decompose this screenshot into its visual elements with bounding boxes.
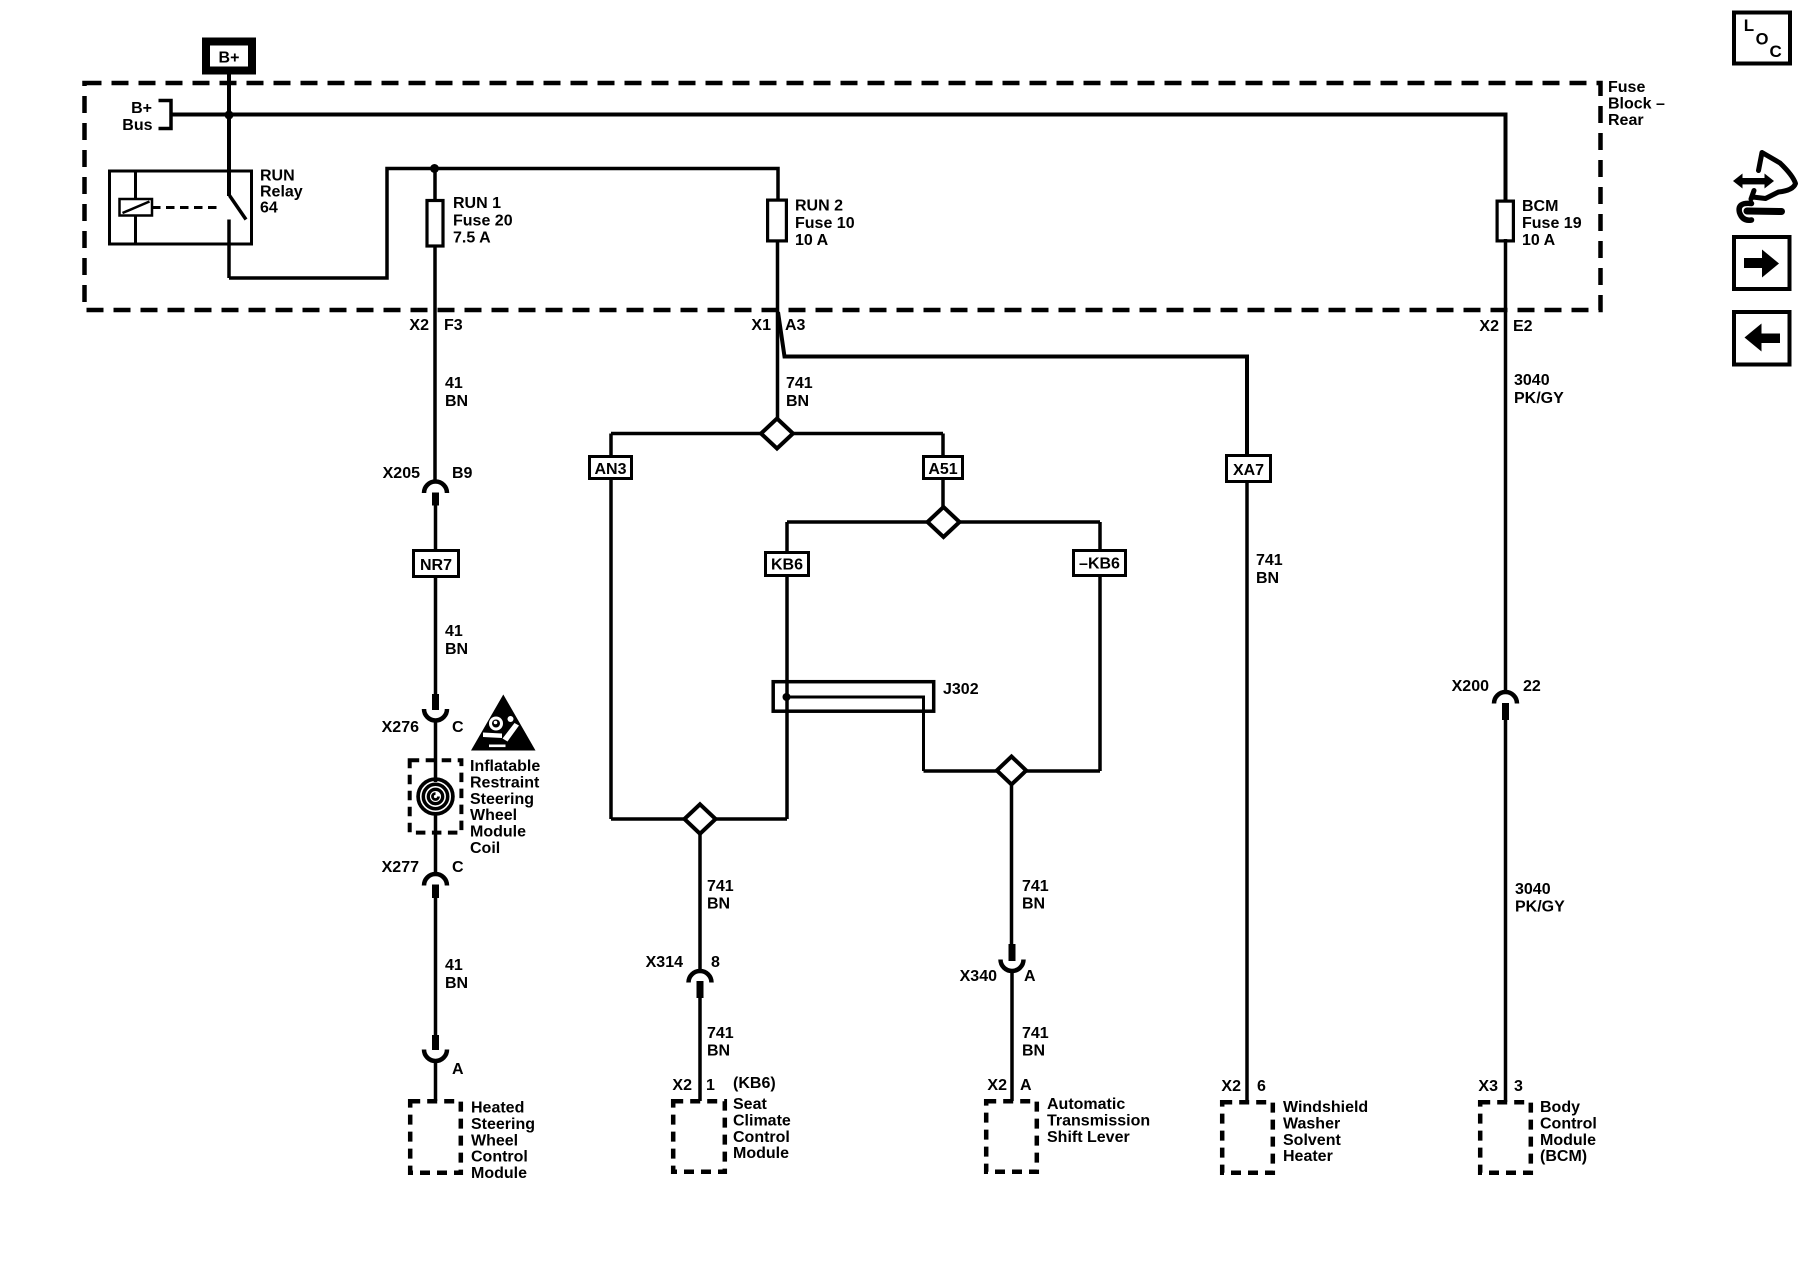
power feed B+ terminal	[206, 42, 252, 71]
svg-text:Automatic: Automatic	[1047, 1096, 1125, 1113]
diagram continuation squiggle arrow icon	[1739, 153, 1795, 221]
svg-text:RUN 2: RUN 2	[795, 198, 843, 215]
wire 3040 PK/GY X200 to BCM	[1504, 718, 1508, 1102]
option box KB6	[766, 553, 809, 576]
wire to AN3	[609, 434, 613, 458]
junction J302 bus	[783, 693, 791, 701]
automatic transmission shift lever box	[986, 1101, 1037, 1172]
svg-text:BN: BN	[1022, 1043, 1045, 1060]
svg-text:NR7: NR7	[420, 557, 452, 574]
svg-text:B9: B9	[452, 465, 473, 482]
splice diamond A51	[928, 507, 960, 537]
seat climate control module label	[733, 1096, 791, 1162]
option box A51	[924, 457, 963, 479]
pins X2 6 washer heater	[1221, 1078, 1266, 1095]
svg-text:Module: Module	[470, 824, 526, 841]
svg-text:X205: X205	[383, 465, 420, 482]
svg-text:10 A: 10 A	[1522, 232, 1556, 249]
wire 741 BN XA7 to washer solvent heater	[1245, 481, 1249, 1102]
connector NR7	[414, 551, 459, 577]
svg-text:Coil: Coil	[470, 840, 500, 857]
pins X1 A3	[751, 317, 805, 334]
wire splice to X314	[698, 833, 702, 970]
svg-text:Solvent: Solvent	[1283, 1132, 1341, 1149]
svg-text:KB6: KB6	[771, 557, 803, 574]
svg-text:Heated: Heated	[471, 1100, 524, 1117]
svg-text:BN: BN	[445, 975, 468, 992]
svg-text:3040: 3040	[1515, 881, 1551, 898]
svg-text:Fuse 20: Fuse 20	[453, 212, 513, 229]
wire 41 BN fuse RUN1 to X205	[433, 246, 437, 481]
svg-text:Module: Module	[1540, 1132, 1596, 1149]
wire into heated steering wheel module	[434, 1060, 438, 1102]
svg-text:BCM: BCM	[1522, 198, 1558, 215]
svg-text:X340: X340	[960, 968, 997, 985]
relay coil-to-switch dashed link	[152, 206, 222, 209]
label 741 BN XA7	[1256, 552, 1283, 587]
svg-text:3: 3	[1514, 1078, 1523, 1095]
svg-text:BN: BN	[707, 1043, 730, 1060]
svg-text:E2: E2	[1513, 318, 1533, 335]
wire X205 to NR7	[434, 503, 438, 550]
svg-text:Control: Control	[471, 1149, 528, 1166]
connector X314 pin 8	[646, 954, 720, 998]
svg-text:741: 741	[707, 1025, 734, 1042]
svg-text:7.5 A: 7.5 A	[453, 230, 491, 247]
wire to A51	[941, 434, 945, 458]
relay label RUN Relay 64	[260, 168, 303, 217]
svg-text:L: L	[1744, 16, 1754, 35]
svg-text:41: 41	[445, 957, 463, 974]
svg-text:22: 22	[1523, 678, 1541, 695]
pins X3 3 BCM	[1478, 1078, 1523, 1095]
node B+ Bus	[122, 100, 171, 134]
label 41 BN segment 1	[445, 375, 468, 410]
wire splice to X340	[1010, 784, 1014, 945]
svg-text:X1: X1	[751, 317, 771, 334]
LOC reference box	[1734, 13, 1790, 64]
svg-text:O: O	[1756, 30, 1769, 48]
coil label	[470, 758, 540, 857]
svg-text:6: 6	[1257, 1078, 1266, 1095]
svg-text:RUN 1: RUN 1	[453, 195, 501, 212]
body control module box	[1480, 1102, 1531, 1173]
splice diamond shift lever branch	[997, 757, 1026, 785]
windshield washer solvent heater label	[1283, 1099, 1368, 1165]
option box -KB6	[1074, 551, 1126, 576]
svg-text:Bus: Bus	[122, 117, 152, 134]
label 741 BN above X340	[1022, 878, 1049, 913]
inflatable restraint steering wheel module coil dashed box	[410, 760, 462, 832]
svg-text:Inflatable: Inflatable	[470, 758, 540, 775]
svg-text:–KB6: –KB6	[1079, 556, 1120, 573]
label 41 BN segment 2	[445, 623, 468, 658]
svg-text:A3: A3	[785, 317, 806, 334]
svg-text:Transmission: Transmission	[1047, 1112, 1150, 1129]
svg-text:PK/GY: PK/GY	[1514, 390, 1564, 407]
wire 41 BN X277 to heated steering wheel module	[434, 896, 438, 1036]
splice diamond seat climate branch	[684, 804, 715, 833]
fuse block label	[1608, 79, 1665, 129]
svg-text:41: 41	[445, 623, 463, 640]
relay coil	[120, 171, 153, 244]
svg-text:BN: BN	[707, 896, 730, 913]
svg-text:B+: B+	[219, 50, 240, 67]
wire 741 BN RUN2 fuse to splice diamond	[776, 241, 780, 434]
automatic transmission shift lever label	[1047, 1096, 1150, 1146]
svg-text:(BCM): (BCM)	[1540, 1148, 1587, 1165]
svg-text:1: 1	[706, 1077, 715, 1094]
svg-text:741: 741	[707, 878, 734, 895]
svg-text:Wheel: Wheel	[470, 807, 517, 824]
wire coil to X277	[434, 814, 438, 872]
svg-text:3040: 3040	[1514, 372, 1550, 389]
svg-text:41: 41	[445, 375, 463, 392]
svg-text:A: A	[452, 1061, 464, 1078]
svg-text:A: A	[1024, 968, 1036, 985]
svg-text:X314: X314	[646, 954, 683, 971]
wire RUN 1 fuse drop	[433, 169, 437, 201]
wire 741 BN X314 to seat climate module	[698, 996, 702, 1101]
pins X2 A shift lever	[987, 1077, 1032, 1094]
relay switch blade	[230, 196, 247, 220]
svg-text:AN3: AN3	[594, 461, 626, 478]
wire B+ bus to BCM fuse	[171, 115, 1506, 202]
svg-text:Windshield: Windshield	[1283, 1099, 1368, 1116]
heated steering wheel control module label	[471, 1100, 535, 1183]
svg-text:C: C	[452, 719, 464, 736]
svg-text:Shift Lever: Shift Lever	[1047, 1129, 1130, 1146]
svg-text:Steering: Steering	[471, 1116, 535, 1133]
wire 3040 PK/GY BCM fuse to X200	[1504, 239, 1508, 691]
connector X340 pin A	[960, 944, 1036, 985]
label 741 BN below X340	[1022, 1025, 1049, 1060]
svg-text:Module: Module	[733, 1145, 789, 1162]
backward reference arrow box	[1734, 312, 1790, 365]
relay RUN Relay 64 box	[110, 171, 252, 244]
svg-text:Control: Control	[1540, 1115, 1597, 1132]
svg-text:X200: X200	[1452, 678, 1489, 695]
wire lower splice horizontal	[611, 817, 787, 821]
svg-text:X276: X276	[382, 719, 419, 736]
svg-text:F3: F3	[444, 317, 463, 334]
body control module label	[1540, 1099, 1597, 1165]
svg-text:X2: X2	[1479, 318, 1499, 335]
connector X200 pin 22	[1452, 678, 1541, 720]
wire 741 BN X340 to shift lever	[1010, 970, 1014, 1102]
svg-text:C: C	[452, 859, 464, 876]
svg-text:X2: X2	[987, 1077, 1007, 1094]
svg-text:Block –: Block –	[1608, 95, 1665, 112]
clockspring coil spiral	[418, 779, 453, 814]
windshield washer solvent heater box	[1222, 1102, 1273, 1173]
wire AN3 to lower splice	[609, 477, 613, 819]
svg-text:J302: J302	[943, 681, 979, 698]
option box XA7	[1227, 456, 1271, 482]
svg-text:BN: BN	[1256, 570, 1279, 587]
svg-text:Seat: Seat	[733, 1096, 767, 1113]
splice diamond 741 BN	[761, 419, 793, 449]
wire branch A3 to XA7	[778, 312, 1247, 456]
svg-text:BN: BN	[445, 641, 468, 658]
svg-text:Relay: Relay	[260, 184, 303, 201]
option box AN3	[590, 457, 632, 479]
pins X2 E2	[1479, 318, 1532, 335]
fuse BCM Fuse 19 10 A	[1497, 201, 1513, 241]
label 41 BN segment 3	[445, 957, 468, 992]
wire KB6 through J302 to lower splice	[785, 575, 789, 820]
svg-text:BN: BN	[786, 393, 809, 410]
svg-text:BN: BN	[1022, 896, 1045, 913]
forward reference arrow box	[1734, 237, 1790, 289]
J302 internal bus wire	[787, 697, 924, 771]
svg-text:C: C	[1770, 42, 1782, 61]
connector X277 pin C	[382, 859, 464, 898]
wire B+ terminal down to relay switch	[227, 75, 231, 197]
svg-text:RUN: RUN	[260, 168, 295, 185]
fuse RUN 1 Fuse 20 7.5 A	[427, 201, 443, 247]
wire to KB6	[785, 522, 789, 553]
svg-text:Fuse: Fuse	[1608, 79, 1645, 96]
svg-text:A: A	[1020, 1077, 1032, 1094]
svg-text:8: 8	[711, 954, 720, 971]
svg-text:741: 741	[1022, 1025, 1049, 1042]
connector pin A heated steering wheel module	[424, 1035, 464, 1078]
connector X205 pin B9	[383, 465, 473, 506]
svg-text:Fuse 19: Fuse 19	[1522, 215, 1582, 232]
label 3040 PK/GY upper	[1514, 372, 1564, 407]
svg-text:Fuse 10: Fuse 10	[795, 215, 855, 232]
svg-text:741: 741	[786, 375, 813, 392]
fuse RUN 2 Fuse 10 10 A	[768, 200, 787, 241]
svg-text:Heater: Heater	[1283, 1148, 1333, 1165]
svg-text:(KB6): (KB6)	[733, 1075, 776, 1092]
svg-text:X2: X2	[672, 1077, 692, 1094]
wire J302 to right splice	[924, 769, 1101, 773]
svg-text:741: 741	[1022, 878, 1049, 895]
wire X276 to coil	[434, 719, 438, 782]
label 3040 PK/GY lower	[1515, 881, 1565, 916]
svg-text:BN: BN	[445, 393, 468, 410]
wire splice horizontal KB6 to -KB6	[787, 520, 1100, 524]
seat climate control module box	[673, 1101, 725, 1172]
wire to -KB6	[1098, 522, 1102, 551]
svg-text:Steering: Steering	[470, 791, 534, 808]
label 741 BN above X314	[707, 878, 734, 913]
svg-text:Rear: Rear	[1608, 112, 1644, 129]
svg-text:Module: Module	[471, 1165, 527, 1182]
double arrow of squiggle icon	[1733, 174, 1774, 189]
svg-text:Climate: Climate	[733, 1112, 791, 1129]
svg-text:Washer: Washer	[1283, 1115, 1340, 1132]
airbag warning triangle	[471, 695, 536, 751]
svg-text:A51: A51	[928, 461, 957, 478]
wire -KB6 to right splice	[1098, 575, 1102, 772]
svg-text:XA7: XA7	[1233, 462, 1264, 479]
wire 41 BN NR7 to X276	[434, 577, 438, 697]
splice pack J302	[773, 681, 978, 711]
label 741 BN below X314	[707, 1025, 734, 1060]
svg-text:Restraint: Restraint	[470, 774, 540, 791]
label 741 BN below A3	[786, 375, 813, 410]
svg-text:Wheel: Wheel	[471, 1132, 518, 1149]
relay switch lower contact	[227, 220, 231, 279]
svg-text:X2: X2	[1221, 1078, 1241, 1095]
svg-text:Body: Body	[1540, 1099, 1580, 1116]
heated steering wheel control module box	[410, 1101, 461, 1173]
svg-text:B+: B+	[131, 100, 152, 117]
svg-text:X3: X3	[1478, 1078, 1498, 1095]
svg-text:64: 64	[260, 200, 278, 217]
svg-text:X2: X2	[409, 317, 429, 334]
svg-text:741: 741	[1256, 552, 1283, 569]
junction bus / relay feed	[225, 111, 234, 120]
svg-text:Control: Control	[733, 1129, 790, 1146]
wire relay output to RUN fuses	[229, 169, 778, 279]
svg-text:10 A: 10 A	[795, 232, 829, 249]
junction relay feed / RUN 1 fuse	[430, 164, 439, 173]
svg-text:X277: X277	[382, 859, 419, 876]
pins X2 1 (KB6) seat climate	[672, 1075, 775, 1094]
wire splice horizontal AN3-A51	[611, 432, 943, 436]
svg-text:PK/GY: PK/GY	[1515, 899, 1565, 916]
wire A51 to KB6 splice	[941, 477, 945, 508]
connector X276 pin C	[382, 694, 464, 736]
fuse block - rear dashed boundary	[85, 83, 1601, 310]
pins X2 F3	[409, 317, 462, 334]
